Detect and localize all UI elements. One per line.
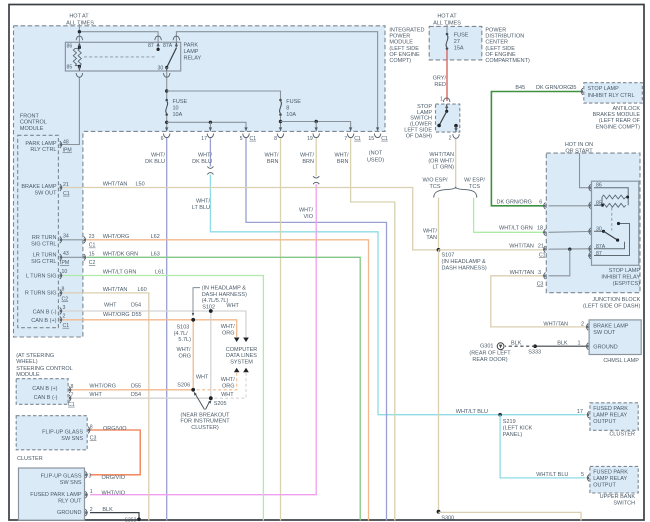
svg-text:WHT/ORG: WHT/ORG bbox=[103, 234, 130, 240]
node below fuse 8 bbox=[279, 120, 282, 123]
wire WHT/TAN: S107 down to S300 bbox=[438, 250, 440, 512]
svg-text:48: 48 bbox=[63, 139, 69, 145]
svg-text:JUNCTION BLOCK: JUNCTION BLOCK bbox=[592, 297, 640, 303]
svg-text:PARK LAMP: PARK LAMP bbox=[25, 141, 56, 147]
wire: battery bus to contact 87 bbox=[79, 32, 158, 50]
relay top pins 86 87 87A bbox=[76, 36, 83, 46]
svg-text:DK BLU: DK BLU bbox=[192, 159, 212, 165]
svg-text:85: 85 bbox=[67, 65, 73, 71]
wire: fuse 8 out to IPM pin 8 bbox=[280, 115, 282, 132]
node on bus at pin 17 bbox=[209, 121, 212, 124]
svg-text:W/ ESP/: W/ ESP/ bbox=[464, 178, 485, 184]
svg-text:(LEFT REAR OF: (LEFT REAR OF bbox=[599, 118, 641, 124]
svg-text:WHT/: WHT/ bbox=[196, 199, 211, 205]
svg-text:ORG: ORG bbox=[222, 330, 235, 336]
svg-text:WHT: WHT bbox=[104, 303, 117, 309]
87 contact path bbox=[594, 224, 630, 256]
wire: pin 6 to relay coil 85 bbox=[549, 205, 589, 207]
svg-text:17: 17 bbox=[577, 409, 583, 415]
svg-text:WHT/TAN: WHT/TAN bbox=[509, 243, 534, 249]
svg-text:WHT: WHT bbox=[221, 392, 234, 398]
upper bank switch dashed box bbox=[590, 466, 638, 493]
svg-text:(REAR OF LEFT: (REAR OF LEFT bbox=[469, 350, 511, 356]
switch internals: pin 1 stub bbox=[446, 104, 448, 111]
wire: relay 30 down to fuse bus bbox=[166, 71, 168, 100]
svg-text:CLUSTER): CLUSTER) bbox=[191, 425, 219, 431]
svg-text:CAN B (+): CAN B (+) bbox=[32, 386, 57, 392]
dashed armature link bbox=[611, 208, 613, 231]
inhibit relay pins bbox=[588, 184, 591, 191]
svg-text:G301: G301 bbox=[480, 344, 493, 350]
svg-text:PANEL): PANEL) bbox=[503, 432, 523, 438]
svg-text:CLUSTER: CLUSTER bbox=[609, 431, 635, 437]
svg-text:BRAKE LAMP: BRAKE LAMP bbox=[593, 323, 628, 329]
svg-text:L63: L63 bbox=[151, 252, 160, 258]
split brace symbol bbox=[434, 187, 477, 198]
relay bottom pins 85 30 bbox=[76, 67, 83, 77]
svg-text:8: 8 bbox=[62, 287, 65, 293]
svg-text:ORG/VIO: ORG/VIO bbox=[102, 475, 126, 481]
coil zigzag bottom bbox=[602, 203, 626, 207]
svg-text:STEERING CONTROL: STEERING CONTROL bbox=[16, 366, 73, 372]
svg-text:LT BLU: LT BLU bbox=[192, 205, 210, 211]
svg-text:L62: L62 bbox=[151, 234, 160, 240]
svg-text:WHT/LT BLU: WHT/LT BLU bbox=[456, 409, 488, 415]
switch fixed contact bbox=[454, 124, 458, 128]
svg-text:5.7L): 5.7L) bbox=[178, 337, 191, 343]
wire: 30 pivot and arm bbox=[594, 230, 604, 232]
svg-text:(LEFT KICK: (LEFT KICK bbox=[503, 425, 533, 431]
svg-text:IPM: IPM bbox=[63, 148, 72, 154]
wire WHT/BRN: IPM pin 19 to connector bbox=[315, 138, 317, 176]
svg-text:15: 15 bbox=[368, 136, 374, 142]
svg-text:15: 15 bbox=[89, 251, 95, 257]
svg-text:LAMP: LAMP bbox=[184, 49, 199, 55]
svg-text:WHT: WHT bbox=[226, 303, 239, 309]
svg-text:WHT/: WHT/ bbox=[423, 229, 438, 235]
svg-text:MODULE: MODULE bbox=[20, 126, 44, 132]
svg-text:(ESP/TCS): (ESP/TCS) bbox=[613, 281, 640, 287]
svg-text:B45: B45 bbox=[515, 85, 525, 91]
svg-text:FUSED PARK LAMP: FUSED PARK LAMP bbox=[30, 492, 82, 498]
svg-text:TCS: TCS bbox=[430, 184, 441, 190]
svg-text:SW OUT: SW OUT bbox=[35, 191, 58, 197]
svg-text:LR TURN: LR TURN bbox=[33, 253, 57, 259]
cluster left dashed box bbox=[16, 416, 87, 450]
svg-text:L61: L61 bbox=[155, 269, 164, 275]
svg-text:RLY OUT: RLY OUT bbox=[58, 498, 82, 504]
svg-text:10: 10 bbox=[173, 106, 179, 112]
svg-text:ENGINE COMPT): ENGINE COMPT) bbox=[596, 124, 640, 130]
svg-text:85: 85 bbox=[596, 200, 602, 206]
svg-text:WHT/: WHT/ bbox=[198, 153, 213, 159]
wire DK GRN/ORG: ABS pin 35 to junction block pin 6 bbox=[491, 92, 580, 206]
svg-text:CAN B (-): CAN B (-) bbox=[34, 395, 58, 401]
node on bus at pin 19 bbox=[315, 120, 318, 123]
svg-text:SYSTEM: SYSTEM bbox=[230, 359, 253, 365]
svg-text:INHIBIT RELAY: INHIBIT RELAY bbox=[601, 274, 640, 280]
svg-text:(IN HEADLAMP &: (IN HEADLAMP & bbox=[442, 259, 487, 265]
svg-text:IPM: IPM bbox=[60, 260, 69, 266]
svg-text:WHEEL): WHEEL) bbox=[16, 359, 38, 365]
svg-text:8: 8 bbox=[71, 384, 74, 390]
svg-text:RED: RED bbox=[434, 82, 446, 88]
svg-text:GRY/: GRY/ bbox=[433, 76, 447, 82]
svg-text:HOT IN ON: HOT IN ON bbox=[565, 142, 593, 148]
wire WHT/TAN: switch pin 2 down to split bbox=[455, 139, 457, 190]
PDC fill bbox=[429, 26, 482, 60]
svg-text:WHT/: WHT/ bbox=[334, 153, 349, 159]
coil end bars bbox=[75, 48, 80, 50]
wire WHT/ORG L62: pin 23 right and down to bottom bbox=[87, 240, 369, 521]
svg-text:86: 86 bbox=[596, 183, 602, 189]
node S205 bbox=[209, 396, 213, 400]
node S107 bbox=[437, 248, 441, 252]
svg-text:BRAKE LAMP: BRAKE LAMP bbox=[21, 184, 56, 190]
bottom module pins 3 1 2 bbox=[85, 471, 88, 478]
svg-text:86: 86 bbox=[67, 44, 73, 50]
svg-text:3: 3 bbox=[89, 473, 92, 479]
wire WHT/BRN: IPM pin 7 jog right then down to bottom bbox=[351, 138, 395, 521]
upper bank switch fill bbox=[590, 466, 638, 493]
wire: FCM pin 43 to connector 15 bbox=[62, 256, 84, 258]
svg-text:UPPER BANK: UPPER BANK bbox=[600, 494, 636, 500]
87A stub bbox=[175, 42, 177, 47]
svg-text:C1: C1 bbox=[63, 191, 70, 197]
svg-text:COMPT): COMPT) bbox=[389, 58, 411, 64]
svg-text:POWER: POWER bbox=[485, 28, 506, 34]
IPM box fill bbox=[14, 26, 386, 132]
svg-text:(LEFT SIDE OF DASH): (LEFT SIDE OF DASH) bbox=[583, 303, 641, 309]
svg-text:FOR INSTRUMENT: FOR INSTRUMENT bbox=[180, 419, 230, 425]
svg-text:POWER: POWER bbox=[389, 34, 410, 40]
svg-text:WHT/: WHT/ bbox=[299, 208, 314, 214]
leader lines for near-breakout note bbox=[195, 394, 205, 410]
PDC dashed box bbox=[429, 26, 482, 60]
wire: drop to pin 19 bbox=[315, 122, 317, 132]
svg-text:DK GRN/ORG: DK GRN/ORG bbox=[536, 85, 571, 91]
svg-text:87: 87 bbox=[148, 43, 154, 49]
svg-text:7: 7 bbox=[71, 392, 74, 398]
svg-text:DASH HARNESS): DASH HARNESS) bbox=[202, 292, 247, 298]
svg-text:W/O ESP/: W/O ESP/ bbox=[422, 178, 448, 184]
svg-text:87A: 87A bbox=[596, 244, 606, 250]
svg-text:DASH HARNESS): DASH HARNESS) bbox=[442, 266, 487, 272]
svg-text:WHT: WHT bbox=[196, 375, 209, 381]
node on pin21 wire bbox=[568, 248, 571, 251]
svg-text:BRN: BRN bbox=[337, 159, 349, 165]
svg-text:WHT/: WHT/ bbox=[221, 324, 236, 330]
wire: fuse 10 bus to pins 17 and 5 bbox=[167, 122, 246, 131]
svg-text:WHT: WHT bbox=[89, 392, 102, 398]
svg-text:C1: C1 bbox=[63, 323, 70, 329]
svg-text:S102: S102 bbox=[202, 304, 215, 310]
svg-text:FLIP-UP GLASS: FLIP-UP GLASS bbox=[41, 473, 82, 479]
cluster right dashed box bbox=[590, 403, 638, 431]
wire: branch to fuse 8 bbox=[167, 91, 281, 100]
svg-text:WHT/: WHT/ bbox=[221, 377, 236, 383]
node S103 bbox=[191, 318, 195, 322]
svg-text:C1: C1 bbox=[68, 402, 75, 408]
wire GRY/RED: fuse 27 to stop lamp switch pin 1 bbox=[446, 49, 448, 101]
svg-text:OF ENGINE: OF ENGINE bbox=[485, 52, 516, 58]
svg-text:87: 87 bbox=[596, 251, 602, 257]
svg-text:L60: L60 bbox=[138, 287, 147, 293]
svg-text:SIG CTRL: SIG CTRL bbox=[31, 259, 56, 265]
87 contact dot bbox=[157, 48, 160, 51]
svg-text:C2: C2 bbox=[62, 297, 69, 303]
svg-text:INHIBIT RLY CTRL: INHIBIT RLY CTRL bbox=[588, 93, 635, 99]
SCM dashed box bbox=[16, 379, 68, 405]
svg-text:SW OUT: SW OUT bbox=[593, 330, 616, 336]
svg-text:1: 1 bbox=[577, 340, 580, 346]
wire WHT: SCM CAN B- to S205 bbox=[70, 397, 211, 399]
wire WHT/TAN L50: FCM pin 21 to S107 bbox=[62, 188, 439, 250]
svg-text:C1: C1 bbox=[89, 243, 96, 249]
FCM pins bbox=[60, 141, 63, 148]
svg-text:21: 21 bbox=[63, 182, 69, 188]
node S219 bbox=[498, 413, 502, 417]
svg-text:ORG: ORG bbox=[179, 354, 192, 360]
svg-text:STOP LAMP: STOP LAMP bbox=[588, 86, 620, 92]
svg-text:ORG/VIO: ORG/VIO bbox=[103, 426, 127, 432]
wire WHT/LT BLU: S219 branch to upper bank switch bbox=[500, 415, 585, 478]
svg-text:S219: S219 bbox=[503, 419, 516, 425]
svg-text:L TURN SIG: L TURN SIG bbox=[26, 274, 57, 280]
cluster pin 17 bbox=[586, 411, 589, 418]
wire: 86 to coil bbox=[594, 188, 628, 197]
svg-text:S300: S300 bbox=[441, 515, 454, 521]
svg-text:6: 6 bbox=[161, 136, 164, 142]
junction block pins 6 18 21 3 bbox=[543, 202, 546, 209]
svg-text:S333: S333 bbox=[528, 350, 541, 356]
SCM pins 8 7 bbox=[69, 386, 72, 393]
node S300 bbox=[437, 510, 441, 514]
wire: relay 87A up and across to IPM pin 15 bbox=[176, 32, 377, 132]
svg-text:ALL TIMES: ALL TIMES bbox=[433, 21, 461, 27]
svg-text:OF ENGINE: OF ENGINE bbox=[389, 52, 420, 58]
data line arrow up WHT/ORG bbox=[234, 368, 240, 373]
svg-text:FRONT: FRONT bbox=[20, 114, 40, 120]
svg-text:WHT/DK GRN: WHT/DK GRN bbox=[103, 252, 138, 258]
park lamp relay pin numbers bbox=[67, 43, 173, 72]
svg-text:WHT/: WHT/ bbox=[264, 153, 279, 159]
wire ORG/VIO: cluster pin 8 loop to pin 3 bbox=[90, 430, 140, 475]
svg-text:(NEAR BREAKOUT: (NEAR BREAKOUT bbox=[181, 412, 231, 418]
svg-text:ALL TIMES: ALL TIMES bbox=[66, 21, 94, 27]
svg-text:17: 17 bbox=[201, 136, 207, 142]
dashed BLK to ground G301 bbox=[505, 345, 535, 347]
data line arrow up WHT bbox=[243, 368, 249, 373]
wire WHT/LT BLU: connector down, across to S219, cluster and upper bank bbox=[210, 175, 585, 415]
svg-text:FUSE: FUSE bbox=[286, 99, 301, 105]
coil side links bbox=[601, 197, 603, 205]
svg-text:(LEFT SIDE: (LEFT SIDE bbox=[485, 46, 515, 52]
svg-text:LT GRN): LT GRN) bbox=[433, 165, 455, 171]
svg-text:WHT/TAN: WHT/TAN bbox=[543, 322, 568, 328]
svg-text:BLK: BLK bbox=[557, 340, 568, 346]
svg-text:34: 34 bbox=[63, 234, 69, 240]
IPM bottom pins bbox=[163, 127, 170, 137]
svg-text:6: 6 bbox=[539, 199, 542, 205]
node S353 bbox=[137, 518, 141, 522]
fuse 8 bbox=[279, 99, 282, 116]
svg-text:CLUSTER: CLUSTER bbox=[17, 456, 43, 462]
svg-text:3: 3 bbox=[63, 305, 66, 311]
svg-text:LAMP RELAY: LAMP RELAY bbox=[593, 412, 627, 418]
fuse 27 bbox=[446, 33, 449, 50]
87A contact path bbox=[594, 242, 625, 249]
cluster left pin 8 bbox=[88, 427, 91, 434]
svg-text:CHMSL LAMP: CHMSL LAMP bbox=[603, 358, 639, 364]
svg-text:7: 7 bbox=[344, 136, 347, 142]
FCM box fill bbox=[14, 26, 83, 337]
svg-text:MODULE: MODULE bbox=[16, 372, 40, 378]
svg-text:COMPUTER: COMPUTER bbox=[226, 347, 258, 353]
wire: PDC hot feed to fuse 27 bbox=[446, 24, 448, 34]
svg-text:BRN: BRN bbox=[267, 159, 279, 165]
svg-text:S353: S353 bbox=[124, 518, 136, 522]
wire WHT/LT GRN L61: FCM pin 10 right and down to bottom bbox=[62, 276, 264, 521]
svg-text:18: 18 bbox=[537, 226, 543, 232]
wire: fuse 10 out to IPM pin 6 bbox=[166, 115, 168, 132]
node below fuse 10 bbox=[165, 121, 168, 124]
svg-text:23: 23 bbox=[89, 234, 95, 240]
svg-text:5: 5 bbox=[581, 472, 584, 478]
svg-text:WHT/ORG: WHT/ORG bbox=[89, 383, 116, 389]
wire: drop to pin 17 bbox=[209, 122, 211, 131]
svg-text:LAMP RELAY: LAMP RELAY bbox=[593, 476, 627, 482]
node at fuse split bbox=[165, 89, 168, 92]
svg-text:5: 5 bbox=[240, 136, 243, 142]
svg-text:35: 35 bbox=[570, 85, 576, 91]
wire: pin 18 to relay 30 bbox=[549, 231, 589, 234]
fuse 10 bbox=[165, 99, 168, 116]
svg-text:SW SNS: SW SNS bbox=[61, 436, 83, 442]
svg-text:PARK: PARK bbox=[184, 43, 199, 49]
svg-text:OUTPUT: OUTPUT bbox=[593, 482, 616, 488]
svg-text:SW SNS: SW SNS bbox=[60, 480, 82, 486]
svg-text:(NOT: (NOT bbox=[369, 151, 383, 157]
svg-text:CAN B (-): CAN B (-) bbox=[33, 309, 57, 315]
leader line for S102 label bbox=[193, 288, 200, 314]
svg-text:(4.7L/: (4.7L/ bbox=[174, 331, 189, 337]
coil zigzag left bbox=[73, 49, 76, 66]
data line arrow down WHT/ORG bbox=[234, 338, 240, 343]
svg-text:RLY CTRL: RLY CTRL bbox=[30, 147, 56, 153]
svg-text:(LEFT SIDE: (LEFT SIDE bbox=[389, 46, 419, 52]
svg-text:2: 2 bbox=[581, 322, 584, 328]
svg-text:S205: S205 bbox=[214, 401, 227, 407]
relay arm 30 to 87A bbox=[167, 48, 177, 68]
svg-text:WHT/LT BLU: WHT/LT BLU bbox=[536, 472, 568, 478]
svg-text:DK GRN/ORG: DK GRN/ORG bbox=[497, 199, 532, 205]
wire WHT/ORG: S103 down to S206 bbox=[192, 320, 194, 390]
svg-text:15A: 15A bbox=[454, 46, 464, 52]
svg-text:3: 3 bbox=[538, 270, 541, 276]
svg-text:WHT/ORG: WHT/ORG bbox=[103, 312, 130, 318]
svg-text:8: 8 bbox=[90, 424, 93, 430]
dashed return wire WHT from computer data lines to S205 bbox=[214, 373, 247, 398]
svg-text:CONTROL: CONTROL bbox=[20, 120, 47, 126]
stop lamp switch dashed box bbox=[436, 104, 460, 132]
data line arrow down WHT bbox=[243, 338, 249, 343]
svg-text:D54: D54 bbox=[131, 392, 141, 398]
node S333 bbox=[533, 344, 537, 348]
svg-text:BRAKES MODULE: BRAKES MODULE bbox=[593, 112, 641, 118]
svg-text:WHT/: WHT/ bbox=[300, 153, 315, 159]
svg-text:C1: C1 bbox=[354, 136, 361, 142]
svg-text:BRN: BRN bbox=[302, 159, 314, 165]
svg-text:(OR WHT/: (OR WHT/ bbox=[428, 158, 454, 164]
switch arm bbox=[439, 111, 447, 125]
svg-text:D55: D55 bbox=[132, 312, 142, 318]
svg-text:REAR DOOR): REAR DOOR) bbox=[472, 357, 507, 363]
svg-text:30: 30 bbox=[158, 66, 164, 72]
svg-text:SWITCH: SWITCH bbox=[613, 500, 635, 506]
svg-text:WHT/TAN: WHT/TAN bbox=[103, 182, 128, 188]
svg-text:R TURN SIG: R TURN SIG bbox=[25, 291, 57, 297]
svg-text:(IN HEADLAMP &: (IN HEADLAMP & bbox=[202, 286, 247, 292]
svg-text:WHT/TAN: WHT/TAN bbox=[429, 152, 454, 158]
svg-text:19: 19 bbox=[307, 136, 313, 142]
junction block fill bbox=[546, 153, 640, 293]
wire WHT/TAN L60: FCM pin 8 right and down to bottom bbox=[62, 293, 149, 521]
svg-text:RELAY: RELAY bbox=[184, 56, 202, 62]
wire WHT/DK BLU: IPM pin 5 jog right then down to bottom bbox=[246, 138, 387, 521]
svg-text:GROUND: GROUND bbox=[57, 510, 81, 516]
svg-text:WHT/VIO: WHT/VIO bbox=[102, 490, 126, 496]
svg-text:TCS: TCS bbox=[469, 184, 480, 190]
svg-text:WHT/TAN: WHT/TAN bbox=[510, 270, 535, 276]
cluster left fill bbox=[16, 416, 87, 450]
svg-text:43: 43 bbox=[63, 251, 69, 257]
wire WHT/DK GRN L63: pin 15 right and down to bottom bbox=[87, 257, 361, 520]
ABS pin 35 bbox=[580, 88, 583, 95]
upper bank pin 5 bbox=[586, 475, 589, 482]
svg-text:10A: 10A bbox=[286, 112, 296, 118]
svg-text:RR TURN: RR TURN bbox=[32, 235, 57, 241]
ABS module fill bbox=[584, 83, 643, 103]
svg-text:C1: C1 bbox=[250, 136, 257, 142]
svg-text:2: 2 bbox=[449, 135, 452, 141]
wire: hot-at-all-times feed down to relay 86 bbox=[78, 24, 80, 47]
svg-text:WHT/TAN: WHT/TAN bbox=[103, 287, 128, 293]
wire WHT/TAN: junction block pin 3 to CHMSL pin 2 bbox=[491, 276, 587, 327]
svg-text:TAN: TAN bbox=[426, 235, 437, 241]
svg-text:FUSED PARK: FUSED PARK bbox=[593, 469, 628, 475]
svg-text:C3: C3 bbox=[90, 436, 97, 442]
svg-text:8: 8 bbox=[274, 136, 277, 142]
svg-text:ORG: ORG bbox=[222, 384, 235, 390]
svg-text:USED): USED) bbox=[367, 158, 384, 164]
node S206 bbox=[191, 388, 195, 392]
PDC pin into switch: none / switch pins bbox=[443, 98, 450, 108]
inhibit relay pin numbers bbox=[596, 183, 606, 257]
svg-text:30: 30 bbox=[596, 226, 602, 232]
svg-text:CAN B (+): CAN B (+) bbox=[31, 318, 56, 324]
wire: fuse 8 bus to pins 19 and 7 bbox=[281, 122, 351, 132]
wire WHT/ORG D55: FCM pin 2 to S103 and data line arrow bbox=[62, 320, 237, 337]
junction block dashed box bbox=[546, 153, 640, 293]
svg-text:HOT AT: HOT AT bbox=[69, 14, 89, 20]
svg-text:WHT/: WHT/ bbox=[151, 153, 166, 159]
svg-text:S103: S103 bbox=[177, 324, 190, 330]
svg-text:CENTER: CENTER bbox=[485, 40, 508, 46]
cluster right fill bbox=[590, 403, 638, 431]
svg-text:1: 1 bbox=[440, 97, 443, 103]
wire WHT/TAN: w/o esp/tcs branch down to S107 bbox=[438, 198, 440, 250]
